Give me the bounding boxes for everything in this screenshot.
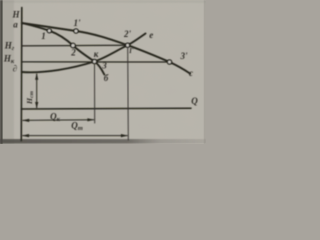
svg-text:2: 2	[70, 48, 76, 58]
svg-text:1': 1'	[73, 18, 81, 28]
pump curve a-1'-2'-3'-c (flat)	[22, 23, 190, 74]
paper background	[0, 0, 206, 144]
svg-text:а: а	[13, 20, 18, 30]
Q axis (horizontal)	[21, 107, 191, 110]
vertical from 2' down	[127, 48, 130, 140]
dimension arrows	[22, 73, 128, 137]
H axis (vertical)	[20, 8, 23, 141]
point 2	[71, 43, 75, 47]
svg-text:Н: Н	[11, 10, 20, 20]
point 1'	[74, 29, 78, 33]
svg-text:к: к	[94, 49, 99, 59]
vignette / scan shading	[0, 0, 206, 3]
svg-text:2': 2'	[123, 29, 132, 39]
point 2'	[126, 43, 130, 47]
H_st dimension arrow	[36, 73, 38, 108]
Q_k dimension arrow	[22, 119, 94, 122]
point k	[92, 59, 96, 63]
svg-text:3: 3	[101, 61, 107, 71]
pipeline curve d-k-2'-e	[22, 34, 146, 73]
point markers (open circles)	[47, 29, 171, 64]
level line H_k (through k to 3')	[22, 61, 167, 63]
svg-text:1: 1	[41, 31, 46, 41]
svg-text:Q: Q	[191, 96, 198, 106]
point 3'	[167, 60, 171, 64]
level line H_g (through 2 to 2')	[22, 44, 125, 47]
svg-text:с: с	[189, 68, 193, 78]
svg-text:3': 3'	[179, 51, 188, 61]
vertical from k down	[94, 64, 96, 123]
svg-text:б: б	[104, 73, 109, 83]
pump curve a-1-2-k-b (steep)	[22, 23, 105, 75]
svg-text:∂: ∂	[13, 64, 17, 74]
svg-text:Г: Г	[128, 47, 134, 55]
svg-text:е: е	[149, 30, 153, 40]
Q_t dimension arrow	[22, 135, 128, 137]
point 1	[47, 29, 51, 33]
